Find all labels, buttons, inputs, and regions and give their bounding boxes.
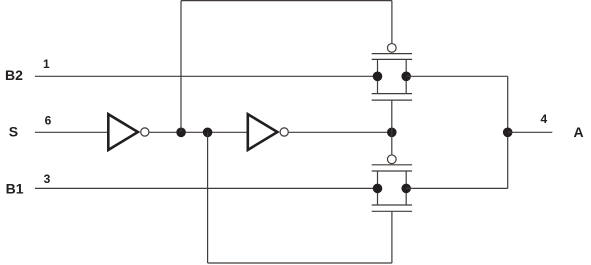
bottom rail wire bbox=[208, 262, 392, 264]
node gate junction dot bbox=[387, 128, 397, 138]
svg-text:B1: B1 bbox=[6, 181, 24, 197]
transmission gate Q2 NMOS drain stub bbox=[405, 188, 407, 205]
transmission gate Q2 PMOS source stub bbox=[377, 171, 379, 188]
transmission gate Q1 PMOS drain stub bbox=[405, 59, 407, 76]
wire A output bbox=[508, 131, 553, 133]
svg-text:4: 4 bbox=[541, 112, 548, 126]
svg-text:S: S bbox=[9, 124, 18, 140]
transmission gate Q1 PMOS source stub bbox=[377, 59, 379, 76]
transmission gate Q2 PMOS drain stub bbox=[405, 171, 407, 188]
svg-text:B2: B2 bbox=[5, 67, 23, 83]
transmission gate Q2 NMOS channel bar bbox=[372, 204, 412, 206]
transmission gate Q1 NMOS source stub bbox=[377, 76, 379, 93]
wire B1 input bbox=[35, 187, 378, 189]
transmission gate Q2 PMOS gate bar bbox=[372, 164, 412, 166]
inverter U1 bbox=[108, 114, 149, 150]
svg-text:A: A bbox=[574, 124, 584, 140]
wire U2 output to gate junction bbox=[289, 131, 392, 133]
transmission gate Q1 PMOS gate bubble bbox=[387, 44, 396, 53]
wire bottom rail up to NMOS gate of Q2 bbox=[391, 211, 393, 263]
wire output vertical joining Q1 and Q2 bbox=[507, 76, 509, 188]
inverter U2 bbox=[248, 114, 289, 150]
wire Q2 output to node A bbox=[406, 187, 508, 189]
wire U1 output to U2 input bbox=[149, 131, 248, 133]
svg-text:1: 1 bbox=[43, 57, 50, 71]
transmission gate Q1 NMOS gate bar bbox=[372, 99, 412, 101]
node Q2 left junction dot bbox=[373, 184, 383, 194]
node Q1 right junction dot bbox=[401, 72, 411, 82]
transmission gate Q1 PMOS gate bar bbox=[372, 53, 412, 55]
transmission gate Q2 PMOS gate bubble bbox=[387, 155, 396, 164]
wire gate junction down to PMOS gate bubble of Q2 bbox=[391, 132, 393, 155]
svg-text:6: 6 bbox=[45, 114, 52, 128]
node Q1 left junction dot bbox=[373, 72, 383, 82]
node junction dot after U1 bbox=[176, 128, 186, 138]
transmission gate Q2 NMOS source stub bbox=[377, 188, 379, 205]
transmission gate Q2 NMOS gate bar bbox=[372, 210, 412, 212]
wire junction up to top rail bbox=[180, 1, 182, 133]
transmission gate Q1 NMOS drain stub bbox=[405, 76, 407, 93]
wire top rail down to PMOS gate bubble of Q1 bbox=[391, 1, 393, 43]
transmission gate Q1 NMOS channel bar bbox=[372, 93, 412, 95]
wire B2 input bbox=[35, 75, 378, 77]
node junction dot to bottom rail bbox=[203, 128, 213, 138]
svg-text:3: 3 bbox=[44, 172, 51, 186]
node Q2 right junction dot bbox=[401, 184, 411, 194]
wire Q1 output to node A bbox=[406, 75, 508, 77]
transmission gate Q1 PMOS channel bar bbox=[372, 58, 412, 60]
top rail wire bbox=[181, 0, 392, 2]
wire gate junction up to NMOS gate of Q1 bbox=[391, 100, 393, 132]
transmission gate Q2 PMOS channel bar bbox=[372, 170, 412, 172]
node A junction dot bbox=[503, 128, 513, 138]
wire S input bbox=[35, 131, 109, 133]
wire junction down to bottom rail bbox=[207, 132, 209, 263]
